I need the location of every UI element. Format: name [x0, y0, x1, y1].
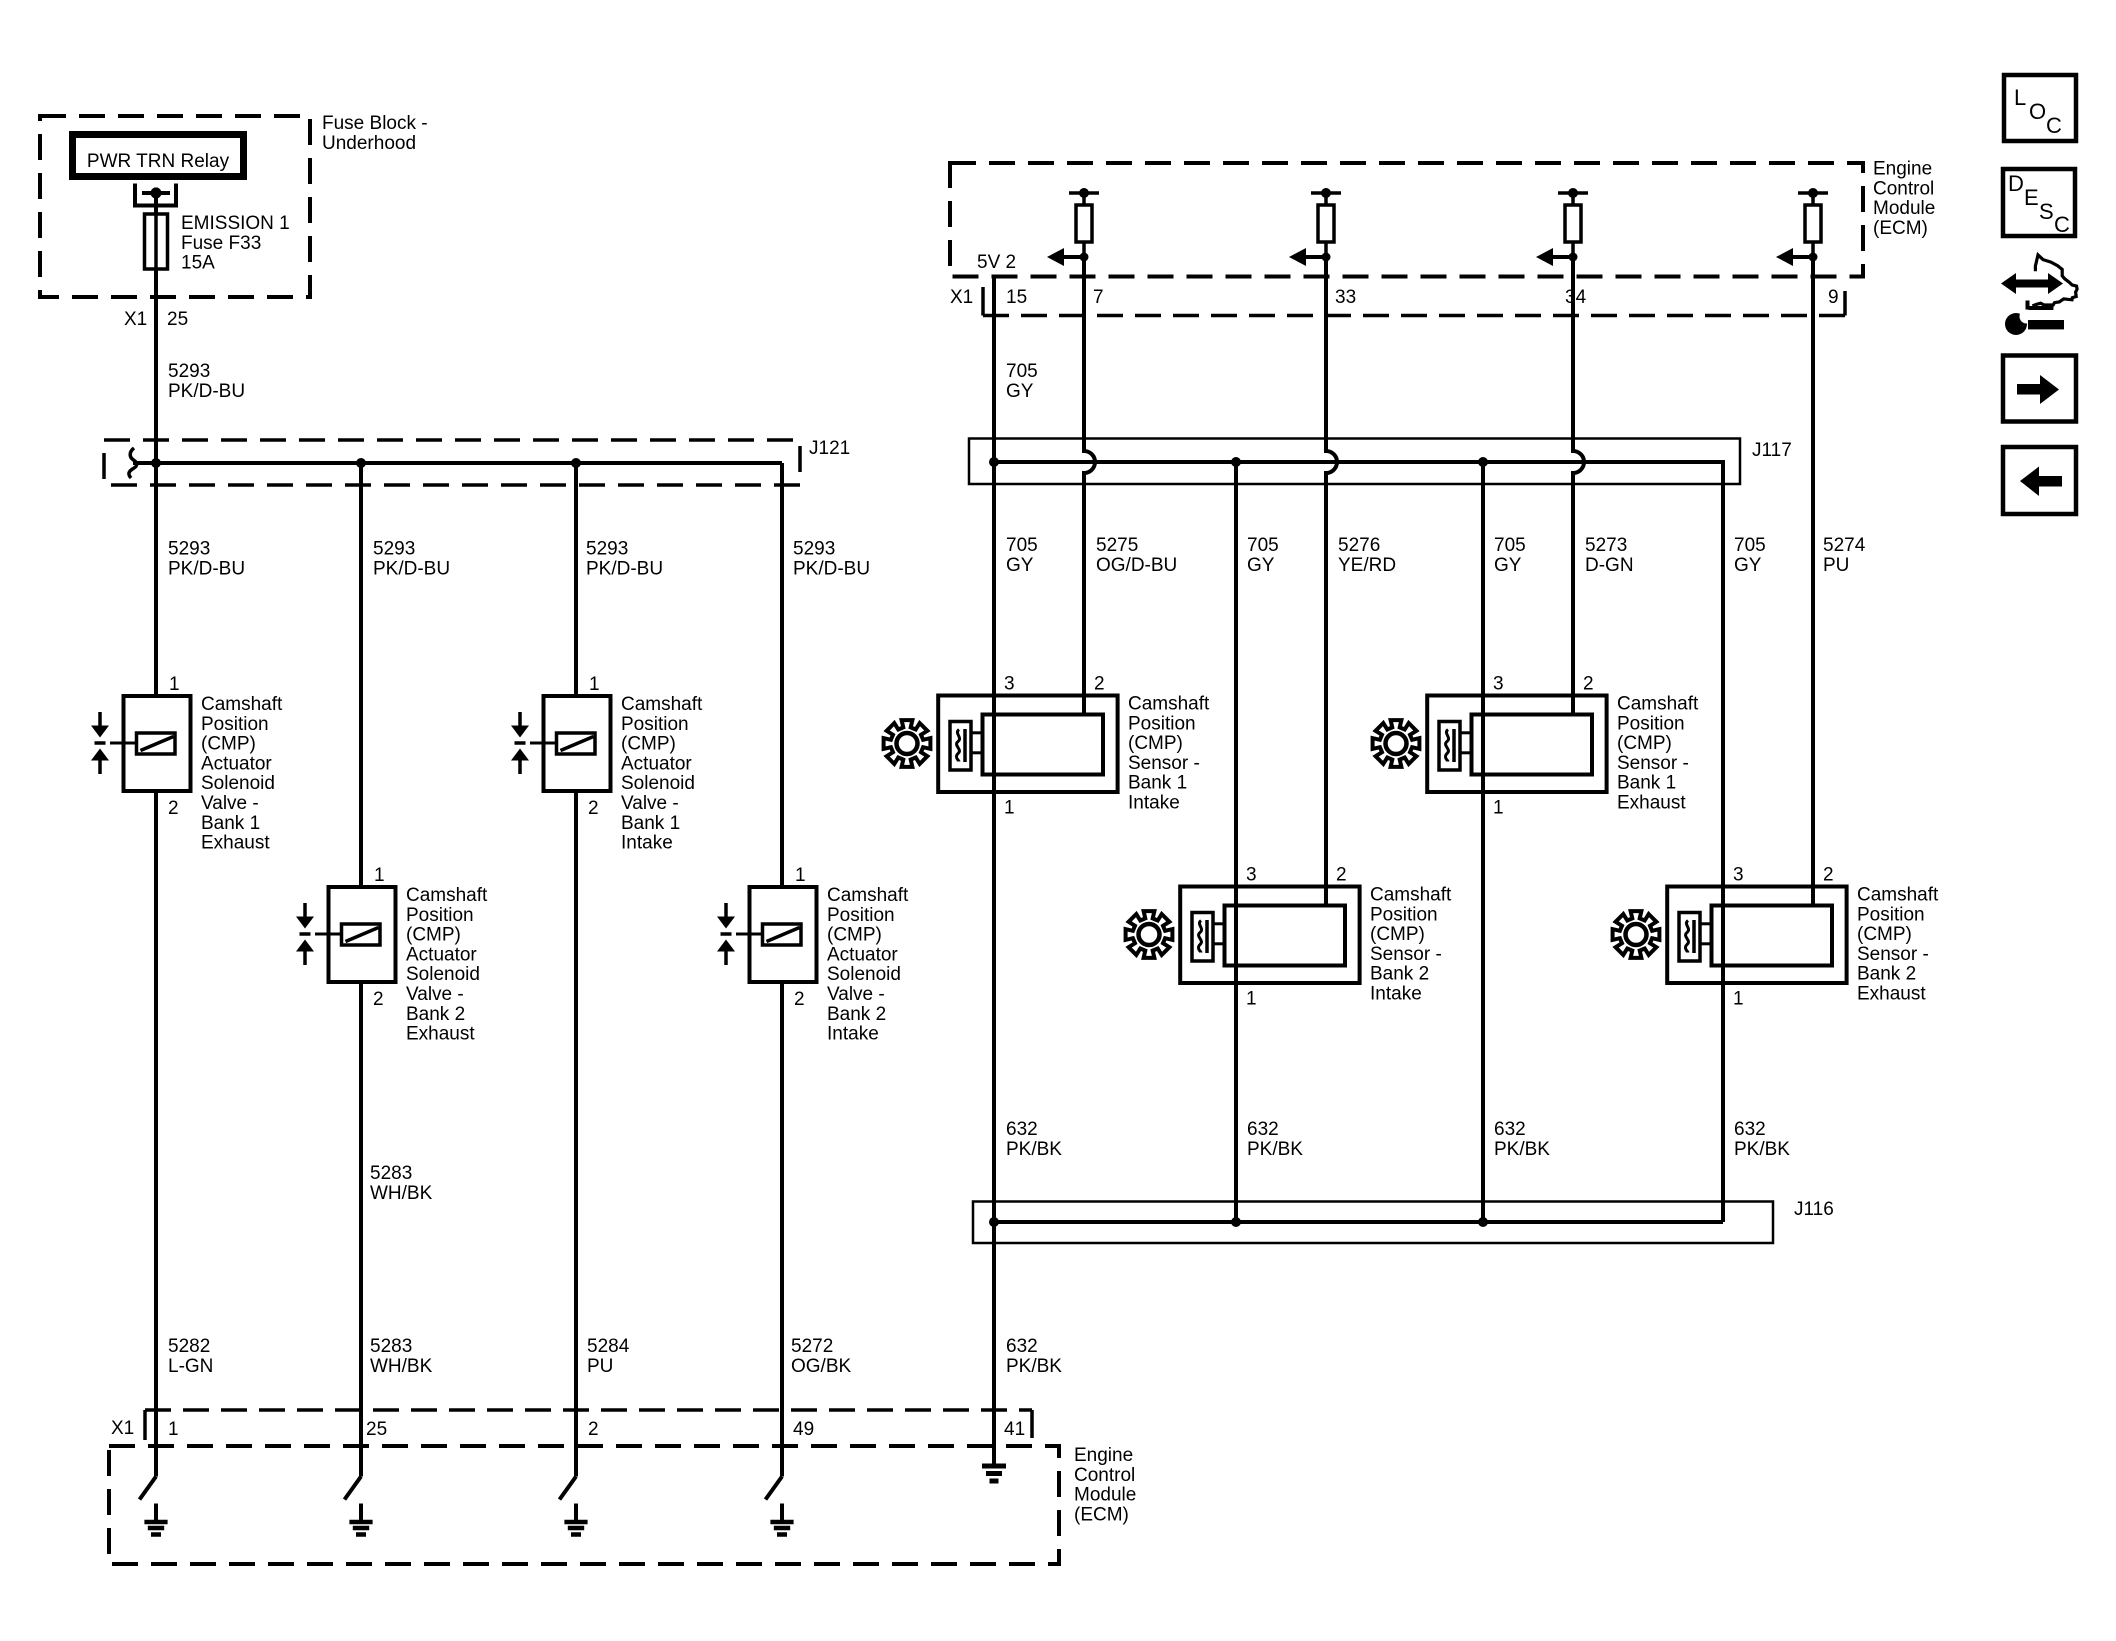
svg-text:Camshaft: Camshaft [1128, 694, 1210, 715]
svg-text:WH/BK: WH/BK [370, 1183, 433, 1204]
svg-text:D: D [2008, 171, 2024, 196]
svg-text:Position: Position [621, 714, 689, 735]
svg-text:PK/BK: PK/BK [1006, 1356, 1062, 1377]
svg-text:Exhaust: Exhaust [201, 833, 270, 854]
svg-text:Bank 1: Bank 1 [1617, 773, 1676, 794]
svg-text:Valve -: Valve - [201, 793, 259, 814]
splice J117 bus wire [994, 462, 1723, 484]
label 5293 PK/D-BU branch 4 [793, 539, 870, 580]
camshaft gear icon for CMP sensor bank 1 exhaust [1373, 720, 1420, 767]
svg-text:5293: 5293 [168, 539, 210, 560]
engine control module ECM dashed box top [950, 163, 1863, 277]
next page button right arrow [2003, 356, 2076, 422]
svg-text:Exhaust: Exhaust [1857, 984, 1926, 1005]
label 5293 PK/D-BU branch 1 [168, 539, 245, 580]
junction dot sensor1 low ref at J116 [989, 1217, 999, 1227]
ground symbol ECM pin 25 driver [349, 1504, 372, 1535]
svg-text:PK/BK: PK/BK [1247, 1139, 1303, 1160]
svg-text:705: 705 [1006, 361, 1038, 382]
ground symbol ECM pin 41 [982, 1466, 1006, 1481]
svg-text:705: 705 [1494, 535, 1526, 556]
svg-text:YE/RD: YE/RD [1338, 555, 1396, 576]
label 632 PK/BK sensor low reference [1006, 1119, 1062, 1160]
svg-text:C: C [2046, 113, 2062, 138]
label 5293 PK/D-BU branch 3 [586, 539, 663, 580]
svg-text:Solenoid: Solenoid [201, 773, 275, 794]
label CMP actuator solenoid valve bank 1 exhaust [201, 694, 283, 854]
svg-text:(CMP): (CMP) [827, 925, 882, 946]
wire 5283 WH/BK valve2 to ECM pin 25 [359, 982, 363, 1410]
svg-text:Actuator: Actuator [201, 753, 272, 774]
svg-text:34: 34 [1565, 287, 1587, 308]
svg-text:Intake: Intake [1370, 984, 1422, 1005]
svg-text:PK/D-BU: PK/D-BU [168, 381, 245, 402]
svg-text:Solenoid: Solenoid [406, 964, 480, 985]
label Engine Control Module ECM bottom [1074, 1445, 1136, 1525]
svg-text:2: 2 [1336, 865, 1347, 886]
CMP sensor CMP sensor bank 1 exhaust [1427, 696, 1606, 793]
svg-text:Bank 1: Bank 1 [621, 813, 680, 834]
pin 7 label [1093, 287, 1104, 308]
junction dot wire 1 at J121 [151, 458, 161, 468]
svg-text:Bank 2: Bank 2 [827, 1004, 886, 1025]
svg-text:1: 1 [1493, 798, 1504, 819]
svg-text:Sensor -: Sensor - [1857, 944, 1929, 965]
svg-text:5276: 5276 [1338, 535, 1380, 556]
svg-text:Module: Module [1074, 1485, 1136, 1506]
label 5276 YE/RD under J117 [1338, 535, 1396, 576]
svg-text:1: 1 [168, 1419, 179, 1440]
svg-text:Bank 1: Bank 1 [201, 813, 260, 834]
svg-text:Sensor -: Sensor - [1128, 753, 1200, 774]
svg-text:3: 3 [1246, 865, 1257, 886]
resistor pull-up in ECM at x1813 [1798, 188, 1828, 257]
svg-text:Position: Position [827, 905, 895, 926]
svg-text:O: O [2029, 99, 2046, 124]
fuse block - underhood dashed box [40, 116, 310, 297]
pin 1 of CMP sensor bank 2 exhaust [1733, 989, 1744, 1010]
svg-text:5273: 5273 [1585, 535, 1627, 556]
pin 2 of CMP actuator solenoid valve bank 2 exhaust [373, 989, 384, 1010]
svg-text:2: 2 [1094, 674, 1105, 695]
svg-text:Module: Module [1873, 198, 1935, 219]
svg-text:PK/D-BU: PK/D-BU [793, 558, 870, 579]
label 705 GY under J117 [1734, 535, 1766, 576]
svg-text:1: 1 [169, 674, 180, 695]
svg-text:D-GN: D-GN [1585, 555, 1634, 576]
pin 9 label [1828, 287, 1839, 308]
ground symbol ECM pin 2 driver [564, 1504, 587, 1535]
signal arrow in ECM at x1573 [1536, 248, 1578, 266]
svg-text:Camshaft: Camshaft [1370, 885, 1452, 906]
label 5284 PU [587, 1336, 630, 1377]
svg-text:E: E [2024, 185, 2039, 210]
svg-text:Actuator: Actuator [406, 944, 477, 965]
label 705 GY under J117 [1247, 535, 1279, 576]
svg-text:Solenoid: Solenoid [621, 773, 695, 794]
svg-text:GY: GY [1247, 555, 1275, 576]
camshaft gear icon for CMP sensor bank 2 exhaust [1613, 911, 1660, 958]
svg-text:2: 2 [588, 798, 599, 819]
label 5283 WH/BK lower [370, 1336, 433, 1377]
svg-text:632: 632 [1247, 1119, 1279, 1140]
svg-text:(ECM): (ECM) [1873, 218, 1928, 239]
wire 705 GY ECM pin 15 to J117 [992, 277, 996, 463]
CMP sensor CMP sensor bank 1 intake [938, 696, 1117, 793]
wire 705 GY to sensor4 pin 3 and 632 PK/BK to J116 [1721, 484, 1725, 1222]
label 5283 WH/BK mid [370, 1163, 433, 1204]
label 705 GY feed [1006, 361, 1038, 402]
svg-text:Sensor -: Sensor - [1370, 944, 1442, 965]
wire fuse to J121 5293 [154, 269, 158, 463]
svg-text:5274: 5274 [1823, 535, 1866, 556]
splice J121 bus wire [129, 448, 782, 478]
wire ECM pin 41 internal ground [992, 1410, 996, 1464]
svg-text:Position: Position [1370, 904, 1438, 925]
svg-text:GY: GY [1006, 555, 1034, 576]
signal arrow in ECM at x1813 [1776, 248, 1818, 266]
svg-text:3: 3 [1004, 674, 1015, 695]
svg-text:PK/D-BU: PK/D-BU [373, 558, 450, 579]
pin 3 of CMP sensor bank 2 intake [1246, 865, 1257, 886]
svg-text:Bank 2: Bank 2 [1857, 964, 1916, 985]
pin 25 label bottom [366, 1419, 387, 1440]
label 632 PK/BK to ECM [1006, 1336, 1062, 1377]
svg-text:15: 15 [1006, 287, 1027, 308]
pin 2 of CMP sensor bank 2 intake [1336, 865, 1347, 886]
svg-text:Fuse Block -: Fuse Block - [322, 113, 428, 134]
splice J117 box [969, 439, 1740, 485]
svg-text:1: 1 [374, 865, 385, 886]
svg-text:Fuse F33: Fuse F33 [181, 233, 261, 254]
label 5273 D-GN under J117 [1585, 535, 1634, 576]
svg-text:Valve -: Valve - [406, 984, 464, 1005]
wire 5284 PU valve3 to ECM pin 2 [574, 791, 578, 1410]
svg-text:1: 1 [1246, 989, 1257, 1010]
label EMISSION 1 Fuse F33 15A [181, 213, 290, 274]
wire branch 2 J121 to valve bank2 exhaust [359, 463, 363, 887]
svg-text:Engine: Engine [1873, 159, 1932, 180]
label 5272 OG/BK [791, 1336, 852, 1377]
svg-text:Camshaft: Camshaft [406, 885, 488, 906]
svg-text:705: 705 [1006, 535, 1038, 556]
svg-text:632: 632 [1006, 1119, 1038, 1140]
wire 5275 OG/D-BU ECM pin 7 to sensor1 pin 2 [1084, 257, 1095, 715]
svg-text:(CMP): (CMP) [406, 925, 461, 946]
solenoid valve CMP actuator solenoid valve bank 1 intake [511, 696, 611, 791]
fuse F33 [145, 214, 168, 269]
splice J116 bus wire [994, 1220, 1723, 1224]
svg-text:2: 2 [794, 989, 805, 1010]
label 632 PK/BK sensor low reference [1494, 1119, 1550, 1160]
svg-text:7: 7 [1093, 287, 1104, 308]
label 5293 PK/D-BU branch 2 [373, 539, 450, 580]
pin 34 label [1565, 287, 1587, 308]
wire 5282 L-GN valve1 to ECM pin 1 [154, 791, 158, 1410]
svg-text:J117: J117 [1752, 440, 1792, 461]
driver switch to ground ECM pin 49 driver [766, 1410, 783, 1500]
pin 2 of CMP actuator solenoid valve bank 2 intake [794, 989, 805, 1010]
label J121 [809, 438, 850, 459]
svg-text:Position: Position [1617, 713, 1685, 734]
pin 15 label [1006, 287, 1027, 308]
pin 2 of CMP sensor bank 1 exhaust [1583, 674, 1594, 695]
label CMP sensor bank 1 exhaust [1617, 694, 1699, 814]
svg-text:Bank 2: Bank 2 [406, 1004, 465, 1025]
label 5282 L-GN [168, 1336, 213, 1377]
junction dot sensor3 supply at J117 [1478, 457, 1488, 467]
wire 705 GY to sensor1 pin 3 and 632 PK/BK to J116 [992, 462, 996, 1222]
svg-text:Camshaft: Camshaft [1617, 694, 1699, 715]
svg-text:Position: Position [201, 714, 269, 735]
relay terminal connector [135, 184, 176, 206]
pin 41 label bottom [1004, 1419, 1025, 1440]
svg-text:33: 33 [1335, 287, 1356, 308]
svg-text:5293: 5293 [373, 539, 415, 560]
wire 705 GY to sensor2 pin 3 and 632 PK/BK to J116 [1234, 462, 1238, 1222]
svg-text:9: 9 [1828, 287, 1839, 308]
label J116 [1794, 1199, 1834, 1220]
svg-text:705: 705 [1734, 535, 1766, 556]
svg-text:705: 705 [1247, 535, 1279, 556]
svg-text:Position: Position [1857, 904, 1925, 925]
driver switch to ground ECM pin 25 driver [345, 1410, 362, 1500]
camshaft gear icon for CMP sensor bank 2 intake [1126, 911, 1173, 958]
svg-text:PU: PU [587, 1356, 613, 1377]
wire 5272 OG/BK valve4 to ECM pin 49 [780, 982, 784, 1410]
svg-text:Intake: Intake [827, 1024, 879, 1045]
solenoid valve CMP actuator solenoid valve bank 1 exhaust [91, 696, 191, 791]
svg-text:Bank 1: Bank 1 [1128, 773, 1187, 794]
svg-text:PK/D-BU: PK/D-BU [586, 558, 663, 579]
label 5293 PK/D-BU feed [168, 361, 245, 402]
ground symbol ECM pin 49 driver [770, 1504, 793, 1535]
previous page button left arrow [2003, 447, 2076, 514]
pin 1 of CMP sensor bank 1 exhaust [1493, 798, 1504, 819]
svg-text:(CMP): (CMP) [201, 734, 256, 755]
svg-text:WH/BK: WH/BK [370, 1356, 433, 1377]
svg-text:(CMP): (CMP) [1857, 924, 1912, 945]
label 705 GY under J117 [1494, 535, 1526, 576]
splice J116 box [973, 1202, 1773, 1244]
label CMP actuator solenoid valve bank 2 exhaust [406, 885, 488, 1045]
svg-text:5275: 5275 [1096, 535, 1138, 556]
wire branch 4 J121 to valve bank2 intake [780, 463, 784, 887]
label CMP sensor bank 2 exhaust [1857, 885, 1939, 1005]
svg-text:25: 25 [167, 309, 188, 330]
splice J121 dashed box [104, 440, 800, 485]
svg-text:Camshaft: Camshaft [827, 885, 909, 906]
label J117 [1752, 440, 1792, 461]
svg-text:Exhaust: Exhaust [1617, 793, 1686, 814]
svg-text:2: 2 [168, 798, 179, 819]
signal arrow in ECM at x1084 [1047, 248, 1089, 266]
svg-text:PU: PU [1823, 555, 1849, 576]
label Fuse Block - Underhood [322, 113, 428, 154]
svg-text:EMISSION 1: EMISSION 1 [181, 213, 290, 234]
svg-text:Camshaft: Camshaft [201, 694, 283, 715]
svg-text:15A: 15A [181, 253, 215, 274]
svg-text:Camshaft: Camshaft [1857, 885, 1939, 906]
pin 3 of CMP sensor bank 1 intake [1004, 674, 1015, 695]
svg-text:Valve -: Valve - [827, 984, 885, 1005]
svg-text:GY: GY [1734, 555, 1762, 576]
svg-text:25: 25 [366, 1419, 387, 1440]
svg-text:S: S [2039, 199, 2054, 224]
svg-text:(CMP): (CMP) [1370, 924, 1425, 945]
junction dot sensor2 low ref at J116 [1231, 1217, 1241, 1227]
pin 1 of CMP actuator solenoid valve bank 2 intake [795, 865, 806, 886]
label 5275 OG/D-BU under J117 [1096, 535, 1177, 576]
driver switch to ground ECM pin 1 driver [140, 1410, 157, 1500]
svg-text:49: 49 [793, 1419, 814, 1440]
svg-text:J121: J121 [809, 438, 850, 459]
label CMP actuator solenoid valve bank 1 intake [621, 694, 703, 854]
solenoid valve CMP actuator solenoid valve bank 2 exhaust [296, 887, 396, 982]
label CMP sensor bank 1 intake [1128, 694, 1210, 814]
svg-text:(CMP): (CMP) [621, 734, 676, 755]
svg-text:PK/BK: PK/BK [1006, 1139, 1062, 1160]
svg-text:5283: 5283 [370, 1163, 412, 1184]
pin 2 of CMP sensor bank 2 exhaust [1823, 865, 1834, 886]
svg-text:X1: X1 [111, 1418, 134, 1439]
camshaft gear icon for CMP sensor bank 1 intake [884, 720, 931, 767]
svg-text:Position: Position [406, 905, 474, 926]
svg-text:2: 2 [1583, 674, 1594, 695]
resistor pull-up in ECM at x1326 [1311, 188, 1341, 257]
svg-text:41: 41 [1004, 1419, 1025, 1440]
svg-text:OG/D-BU: OG/D-BU [1096, 555, 1177, 576]
junction dot wire 2 at J121 [356, 458, 366, 468]
LOC button [2004, 75, 2076, 141]
label 5274 PU under J117 [1823, 535, 1866, 576]
svg-text:5282: 5282 [168, 1336, 210, 1357]
wire 5273 D-GN ECM pin 34 to sensor3 pin 2 [1573, 257, 1584, 715]
svg-text:Bank 2: Bank 2 [1370, 964, 1429, 985]
svg-text:Solenoid: Solenoid [827, 964, 901, 985]
svg-text:5272: 5272 [791, 1336, 833, 1357]
svg-text:OG/BK: OG/BK [791, 1356, 852, 1377]
DESC button [2003, 169, 2075, 237]
svg-text:(ECM): (ECM) [1074, 1504, 1129, 1525]
pin 2 of CMP actuator solenoid valve bank 1 intake [588, 798, 599, 819]
resistor pull-up in ECM at x1084 [1069, 188, 1099, 257]
svg-text:GY: GY [1494, 555, 1522, 576]
pin 1 of CMP actuator solenoid valve bank 1 intake [589, 674, 600, 695]
svg-text:632: 632 [1734, 1119, 1766, 1140]
svg-text:5V 2: 5V 2 [977, 252, 1016, 273]
svg-text:PK/BK: PK/BK [1494, 1139, 1550, 1160]
pin 1 of CMP actuator solenoid valve bank 2 exhaust [374, 865, 385, 886]
svg-text:Intake: Intake [1128, 793, 1180, 814]
svg-text:Exhaust: Exhaust [406, 1024, 475, 1045]
svg-text:Engine: Engine [1074, 1445, 1133, 1466]
wire 5274 PU ECM pin 9 to sensor4 pin 2 [1811, 257, 1815, 906]
resistor pull-up in ECM at x1573 [1558, 188, 1588, 257]
svg-text:Valve -: Valve - [621, 793, 679, 814]
svg-text:1: 1 [1004, 798, 1015, 819]
svg-text:Control: Control [1873, 178, 1934, 199]
label 705 GY under J117 [1006, 535, 1038, 576]
junction dot wire 3 at J121 [571, 458, 581, 468]
svg-text:(CMP): (CMP) [1617, 733, 1672, 754]
svg-text:2: 2 [1823, 865, 1834, 886]
svg-text:1: 1 [1733, 989, 1744, 1010]
svg-text:3: 3 [1733, 865, 1744, 886]
label Engine Control Module ECM top [1873, 159, 1935, 239]
wrench icon [2005, 310, 2064, 336]
svg-text:X1: X1 [124, 309, 147, 330]
svg-text:2: 2 [373, 989, 384, 1010]
svg-text:632: 632 [1006, 1336, 1038, 1357]
wire branch 1 J121 to valve bank1 exhaust [154, 463, 158, 696]
engine control module ECM dashed box bottom [109, 1446, 1059, 1564]
label CMP sensor bank 2 intake [1370, 885, 1452, 1005]
svg-text:2: 2 [588, 1419, 599, 1440]
pin 1 of CMP actuator solenoid valve bank 1 exhaust [169, 674, 180, 695]
signal arrow in ECM at x1326 [1289, 248, 1331, 266]
svg-text:L: L [2014, 85, 2026, 110]
svg-text:1: 1 [795, 865, 806, 886]
svg-text:GY: GY [1006, 381, 1034, 402]
CMP sensor CMP sensor bank 2 exhaust [1667, 887, 1846, 984]
wire 5276 YE/RD ECM pin 33 to sensor2 pin 2 [1326, 257, 1337, 906]
solenoid valve CMP actuator solenoid valve bank 2 intake [717, 887, 817, 982]
pin 1 label bottom [168, 1419, 179, 1440]
svg-text:5293: 5293 [586, 539, 628, 560]
svg-text:L-GN: L-GN [168, 1356, 213, 1377]
driver switch to ground ECM pin 2 driver [560, 1410, 577, 1500]
pin 2 of CMP sensor bank 1 intake [1094, 674, 1105, 695]
svg-text:632: 632 [1494, 1119, 1526, 1140]
pin 33 label [1335, 287, 1356, 308]
connector view icon component outline [2028, 255, 2078, 308]
wire 632 PK/BK J116 to ECM pin 41 [992, 1222, 996, 1410]
pin 2 label bottom [588, 1419, 599, 1440]
svg-text:Position: Position [1128, 713, 1196, 734]
svg-text:PK/BK: PK/BK [1734, 1139, 1790, 1160]
svg-text:(CMP): (CMP) [1128, 733, 1183, 754]
CMP sensor CMP sensor bank 2 intake [1180, 887, 1359, 984]
relay PWR TRN Relay [73, 135, 244, 177]
wire branch 3 J121 to valve bank1 intake [574, 463, 578, 696]
svg-text:PWR TRN Relay: PWR TRN Relay [87, 151, 230, 172]
label 632 PK/BK sensor low reference [1734, 1119, 1790, 1160]
junction dot sensor3 low ref at J116 [1478, 1217, 1488, 1227]
svg-text:J116: J116 [1794, 1199, 1834, 1220]
svg-text:3: 3 [1493, 674, 1504, 695]
svg-text:Camshaft: Camshaft [621, 694, 703, 715]
ground symbol ECM pin 1 driver [144, 1504, 167, 1535]
connector view icon double arrow [2001, 273, 2063, 294]
svg-text:Control: Control [1074, 1465, 1135, 1486]
svg-text:Actuator: Actuator [827, 944, 898, 965]
pin 49 label bottom [793, 1419, 814, 1440]
pin 1 of CMP sensor bank 2 intake [1246, 989, 1257, 1010]
pin 3 of CMP sensor bank 1 exhaust [1493, 674, 1504, 695]
svg-text:Underhood: Underhood [322, 133, 416, 154]
pin 1 of CMP sensor bank 1 intake [1004, 798, 1015, 819]
svg-text:Intake: Intake [621, 833, 673, 854]
svg-text:C: C [2054, 212, 2070, 237]
junction dot sensor1 supply at J117 [989, 457, 999, 467]
svg-text:5293: 5293 [168, 361, 210, 382]
pin label X1 25 fuse block output [124, 309, 188, 330]
pin 2 of CMP actuator solenoid valve bank 1 exhaust [168, 798, 179, 819]
ECM X1 connector row bottom [111, 1410, 1032, 1440]
svg-text:5284: 5284 [587, 1336, 630, 1357]
svg-text:PK/D-BU: PK/D-BU [168, 558, 245, 579]
